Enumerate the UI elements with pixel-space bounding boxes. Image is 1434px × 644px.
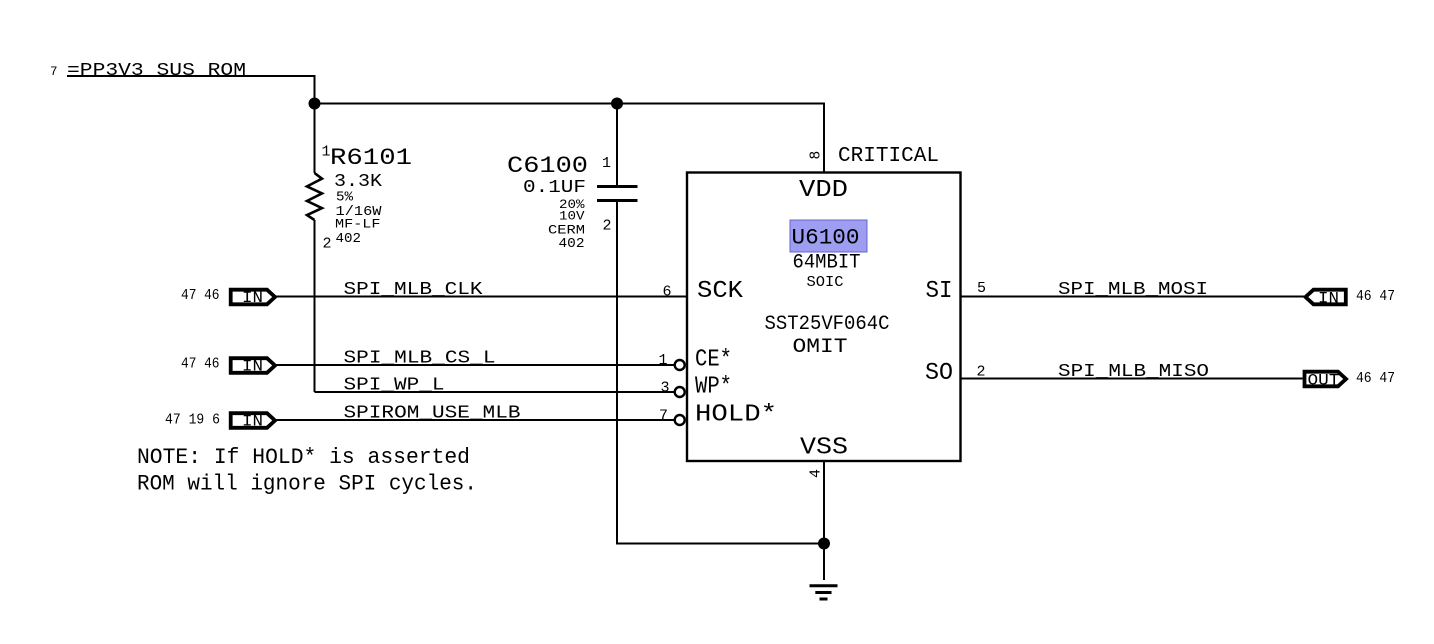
svg-text:47 46: 47 46 — [181, 287, 220, 304]
svg-text:47 19 6: 47 19 6 — [165, 412, 220, 429]
svg-text:10V: 10V — [559, 210, 585, 224]
capacitor C6100 bottom plate — [597, 199, 638, 202]
port OUT SPI_MLB_MISO symbol (right, arrow right) — [1305, 372, 1347, 387]
wire SPI_MLB_CS_L — [276, 364, 674, 366]
svg-text:4: 4 — [808, 469, 825, 478]
svg-text:CE*: CE* — [695, 347, 732, 374]
svg-text:SCK: SCK — [697, 278, 744, 305]
pin bubble WP* — [675, 387, 685, 397]
svg-text:2: 2 — [323, 236, 332, 253]
svg-text:SPI_MLB_MISO: SPI_MLB_MISO — [1058, 362, 1209, 382]
svg-text:SPI_MLB_CLK: SPI_MLB_CLK — [344, 280, 483, 300]
junction dot at resistor top — [309, 98, 321, 110]
port IN SPI_MLB_MOSI symbol (right, arrow left) — [1306, 290, 1346, 305]
wire SPI_MLB_CLK — [276, 296, 687, 298]
IC U6100 refdes highlight — [790, 220, 867, 252]
svg-text:ROM will ignore SPI cycles.: ROM will ignore SPI cycles. — [137, 472, 477, 497]
wire rail down to resistor R6101 — [314, 104, 316, 174]
svg-text:1: 1 — [602, 155, 611, 172]
svg-text:SO: SO — [925, 360, 953, 387]
resistor R6101 zigzag — [307, 173, 322, 220]
svg-text:SST25VF064C: SST25VF064C — [765, 313, 890, 336]
wire capacitor bottom lead down to ground rail — [617, 202, 824, 544]
svg-text:2: 2 — [603, 218, 612, 235]
svg-text:64MBIT: 64MBIT — [793, 252, 861, 275]
svg-text:=PP3V3_SUS_ROM: =PP3V3_SUS_ROM — [67, 61, 246, 81]
wire SPI_MLB_MISO — [961, 378, 1303, 380]
svg-text:HOLD*: HOLD* — [695, 402, 777, 429]
svg-text:402: 402 — [336, 231, 362, 247]
port IN SPI_MLB_CLK symbol — [231, 290, 275, 305]
svg-text:1: 1 — [658, 352, 667, 369]
svg-text:OUT: OUT — [1308, 372, 1340, 390]
svg-text:NOTE: If HOLD* is asserted: NOTE: If HOLD* is asserted — [137, 445, 470, 470]
wire SPI_WP_L — [315, 391, 675, 393]
port IN SPIROM_USE_MLB symbol — [231, 413, 275, 428]
svg-text:47 46: 47 46 — [181, 356, 220, 373]
svg-text:R6101: R6101 — [330, 145, 412, 171]
port IN SPI_MLB_CS_L symbol — [231, 358, 275, 373]
svg-text:7: 7 — [659, 408, 668, 425]
svg-text:402: 402 — [559, 236, 585, 252]
svg-text:3: 3 — [660, 380, 669, 397]
pin bubble HOLD* — [675, 415, 685, 425]
junction dot at capacitor top — [611, 98, 623, 110]
svg-text:WP*: WP* — [695, 374, 732, 401]
svg-text:46 47: 46 47 — [1356, 370, 1395, 387]
svg-text:7: 7 — [50, 65, 58, 79]
svg-text:SOIC: SOIC — [807, 274, 844, 291]
wire PP3V3_SUS_ROM horizontal from label — [67, 76, 315, 104]
svg-text:C6100: C6100 — [507, 153, 588, 179]
capacitor C6100 top plate — [597, 185, 638, 188]
svg-text:0.1UF: 0.1UF — [523, 178, 586, 198]
svg-text:IN: IN — [242, 358, 263, 376]
pin bubble CE* — [675, 360, 685, 370]
wire capacitor top lead — [616, 104, 618, 187]
svg-text:3.3K: 3.3K — [334, 172, 382, 192]
svg-text:IN: IN — [1318, 290, 1339, 308]
svg-text:SPI_WP_L: SPI_WP_L — [344, 376, 445, 396]
svg-text:VDD: VDD — [799, 177, 848, 204]
svg-text:SPI_MLB_MOSI: SPI_MLB_MOSI — [1058, 280, 1208, 300]
wire top rail to VDD — [315, 104, 825, 173]
wire R6101 bottom down to SPI_WP_L — [314, 220, 316, 392]
svg-text:SI: SI — [926, 278, 953, 305]
svg-text:6: 6 — [662, 284, 671, 301]
svg-text:8: 8 — [809, 151, 825, 160]
svg-text:IN: IN — [242, 289, 263, 307]
svg-text:5: 5 — [977, 280, 986, 297]
svg-text:MF-LF: MF-LF — [335, 218, 381, 232]
svg-text:VSS: VSS — [800, 435, 848, 462]
junction dot ground rail — [818, 538, 830, 550]
op IC U6100 body — [687, 173, 961, 462]
svg-text:OMIT: OMIT — [793, 336, 848, 359]
svg-text:IN: IN — [242, 413, 263, 431]
wire SPI_MLB_MOSI — [961, 296, 1304, 298]
svg-text:SPI_MLB_CS_L: SPI_MLB_CS_L — [344, 349, 496, 369]
svg-text:SPIROM_USE_MLB: SPIROM_USE_MLB — [344, 404, 521, 424]
svg-text:CRITICAL: CRITICAL — [838, 145, 939, 168]
svg-text:46 47: 46 47 — [1356, 288, 1395, 305]
svg-text:U6100: U6100 — [792, 226, 860, 251]
wire SPIROM_USE_MLB — [276, 419, 674, 421]
wire VSS to ground — [823, 461, 825, 580]
ground symbol — [810, 584, 838, 587]
